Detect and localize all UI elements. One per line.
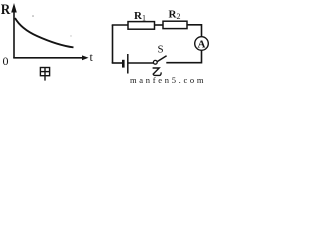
wire: circuit left vertical	[112, 25, 114, 63]
switch S pivot	[153, 60, 157, 64]
svg-text:R1: R1	[134, 10, 146, 23]
resistor R2	[163, 21, 187, 28]
svg-text:R2: R2	[169, 9, 181, 22]
vertical axis (R axis)	[13, 6, 15, 58]
svg-text:t: t	[90, 50, 94, 64]
wire: battery to switch	[128, 62, 153, 64]
label 甲 (figure a) drawn as strokes	[40, 68, 49, 81]
svg-text:S: S	[158, 44, 164, 56]
ammeter U1	[195, 37, 209, 51]
svg-text:A: A	[198, 39, 206, 51]
switch S blade	[157, 56, 167, 62]
wire: left corner to battery	[112, 62, 122, 64]
battery positive plate (long)	[127, 54, 129, 74]
speckle	[32, 15, 34, 17]
horizontal axis (t axis)	[13, 57, 85, 59]
resistor R1	[128, 22, 155, 30]
wire: circuit top-left horizontal	[112, 24, 128, 26]
svg-text:R: R	[1, 2, 11, 18]
svg-text:manfen5.com: manfen5.com	[130, 75, 206, 85]
wire: between R1 and R2	[155, 24, 164, 26]
wire: R2 to top-right corner and down to ammeter	[187, 25, 202, 37]
speckle	[70, 35, 71, 36]
label 乙 (figure b) drawn as strokes	[153, 68, 162, 75]
vertical axis arrowhead	[11, 3, 17, 13]
svg-text:0: 0	[3, 54, 9, 68]
horizontal axis arrowhead	[82, 55, 89, 60]
battery negative plate (short thick)	[122, 60, 125, 68]
decay curve R(t)	[15, 18, 74, 47]
wire: ammeter down to bottom-right corner and left to switch	[166, 50, 201, 62]
